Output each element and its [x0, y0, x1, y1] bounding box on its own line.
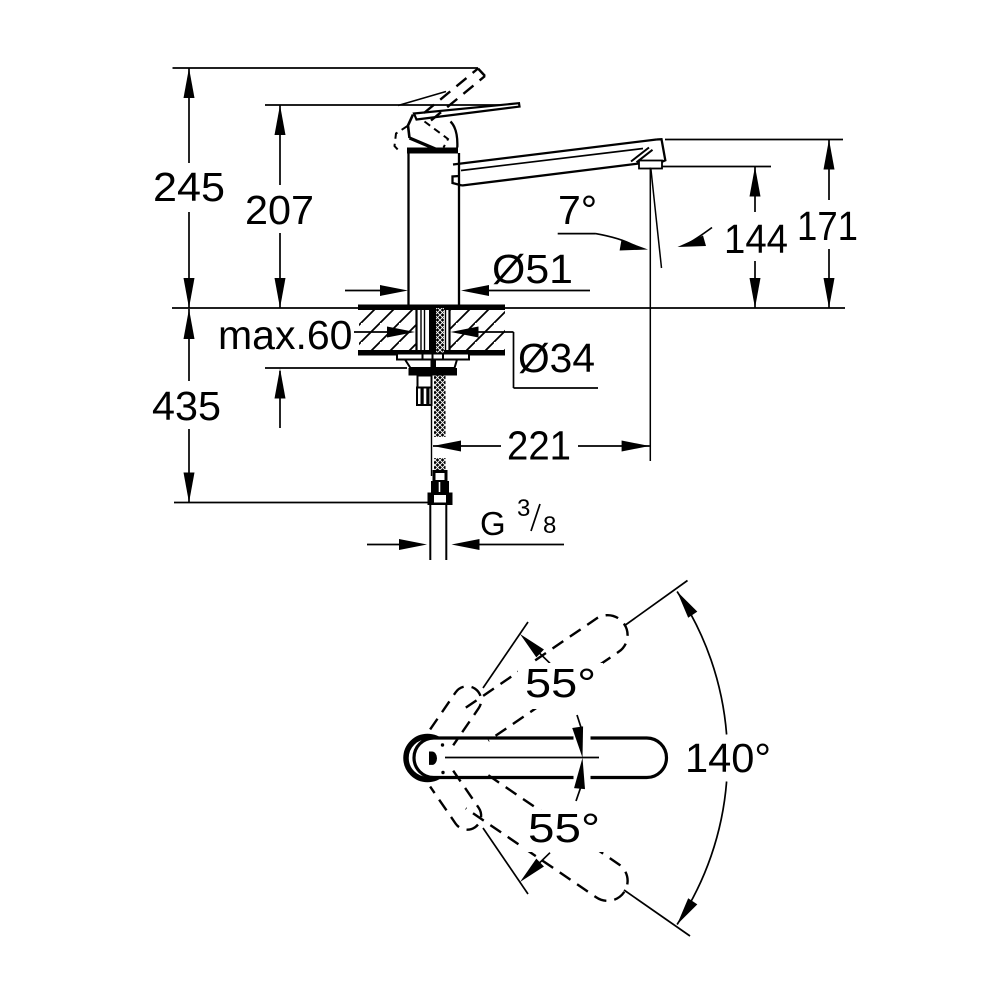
dimension 245 [153, 68, 225, 308]
extension line 207 top [265, 104, 519, 106]
dimension max.60 [218, 312, 407, 428]
55 deg extent line upper [483, 622, 528, 688]
mounting cone [405, 360, 457, 369]
svg-text:144: 144 [724, 216, 788, 262]
countertop line [172, 307, 845, 309]
dimension 207 [245, 105, 314, 308]
svg-text:435: 435 [152, 383, 221, 429]
G3/8 nut [428, 493, 453, 506]
dimension 171 [665, 140, 858, 309]
handle lever solid [414, 103, 520, 119]
svg-text:207: 207 [245, 187, 314, 233]
55 deg dimension lower [516, 757, 607, 886]
dimension 144 [651, 167, 788, 309]
flexible hose upper [434, 376, 446, 438]
handle stub dashed upper [430, 681, 486, 745]
spout [453, 139, 666, 185]
svg-text:8: 8 [543, 512, 556, 539]
countertop bold bottom edge [358, 350, 505, 356]
55 deg dimension upper [516, 630, 603, 781]
svg-text:G: G [480, 505, 506, 542]
faucet body column [409, 153, 460, 307]
dimension 221 [433, 423, 650, 469]
body top black band [407, 148, 458, 154]
svg-text:7°: 7° [558, 187, 597, 233]
svg-text:max.60: max.60 [218, 312, 352, 358]
handle stub dashed lower [430, 771, 486, 835]
svg-text:221: 221 [507, 423, 571, 469]
mounting nut [409, 368, 458, 376]
handle lever raised (dashed) [424, 69, 485, 121]
water stream line 7 deg [651, 168, 662, 268]
supply tube [430, 505, 446, 560]
dimension G 3/8 [367, 495, 564, 550]
spout dashed position upper [466, 607, 636, 740]
svg-text:245: 245 [153, 164, 225, 210]
pivot dots [441, 743, 444, 746]
handle body [395, 92, 458, 153]
countertop bold top edge [358, 305, 505, 311]
base circle [406, 737, 449, 780]
140 deg extent line upper [624, 581, 688, 627]
svg-text:140°: 140° [685, 735, 771, 781]
mounting shank through countertop [417, 308, 450, 353]
140 deg extent line lower [624, 890, 690, 936]
hose end fitting [431, 470, 449, 493]
dimension 435 [152, 309, 430, 503]
svg-text:Ø51: Ø51 [492, 246, 573, 292]
svg-text:3: 3 [517, 495, 530, 522]
flexible hose lower [434, 458, 446, 476]
extension line 245 top [173, 67, 479, 69]
140 deg arc [677, 592, 727, 925]
countertop hatch right [450, 309, 505, 351]
spout top view solid [414, 738, 667, 778]
svg-text:55°: 55° [525, 660, 596, 706]
spout dashed position lower [466, 775, 636, 908]
center mark [429, 752, 437, 765]
svg-text:55°: 55° [528, 805, 600, 851]
svg-text:Ø34: Ø34 [518, 335, 595, 381]
spout center line [445, 757, 599, 759]
svg-text:171: 171 [797, 203, 858, 249]
plumb reference line [649, 168, 651, 462]
55 deg extent line lower [483, 828, 528, 894]
dimension diameter 51 [345, 246, 590, 296]
hose guide line [431, 405, 433, 476]
countertop hatch left [359, 309, 416, 351]
dimension 7 degrees [558, 187, 712, 251]
dimension diameter 34 [354, 327, 598, 389]
fitting below nut [417, 376, 432, 406]
washer under countertop [397, 354, 469, 360]
